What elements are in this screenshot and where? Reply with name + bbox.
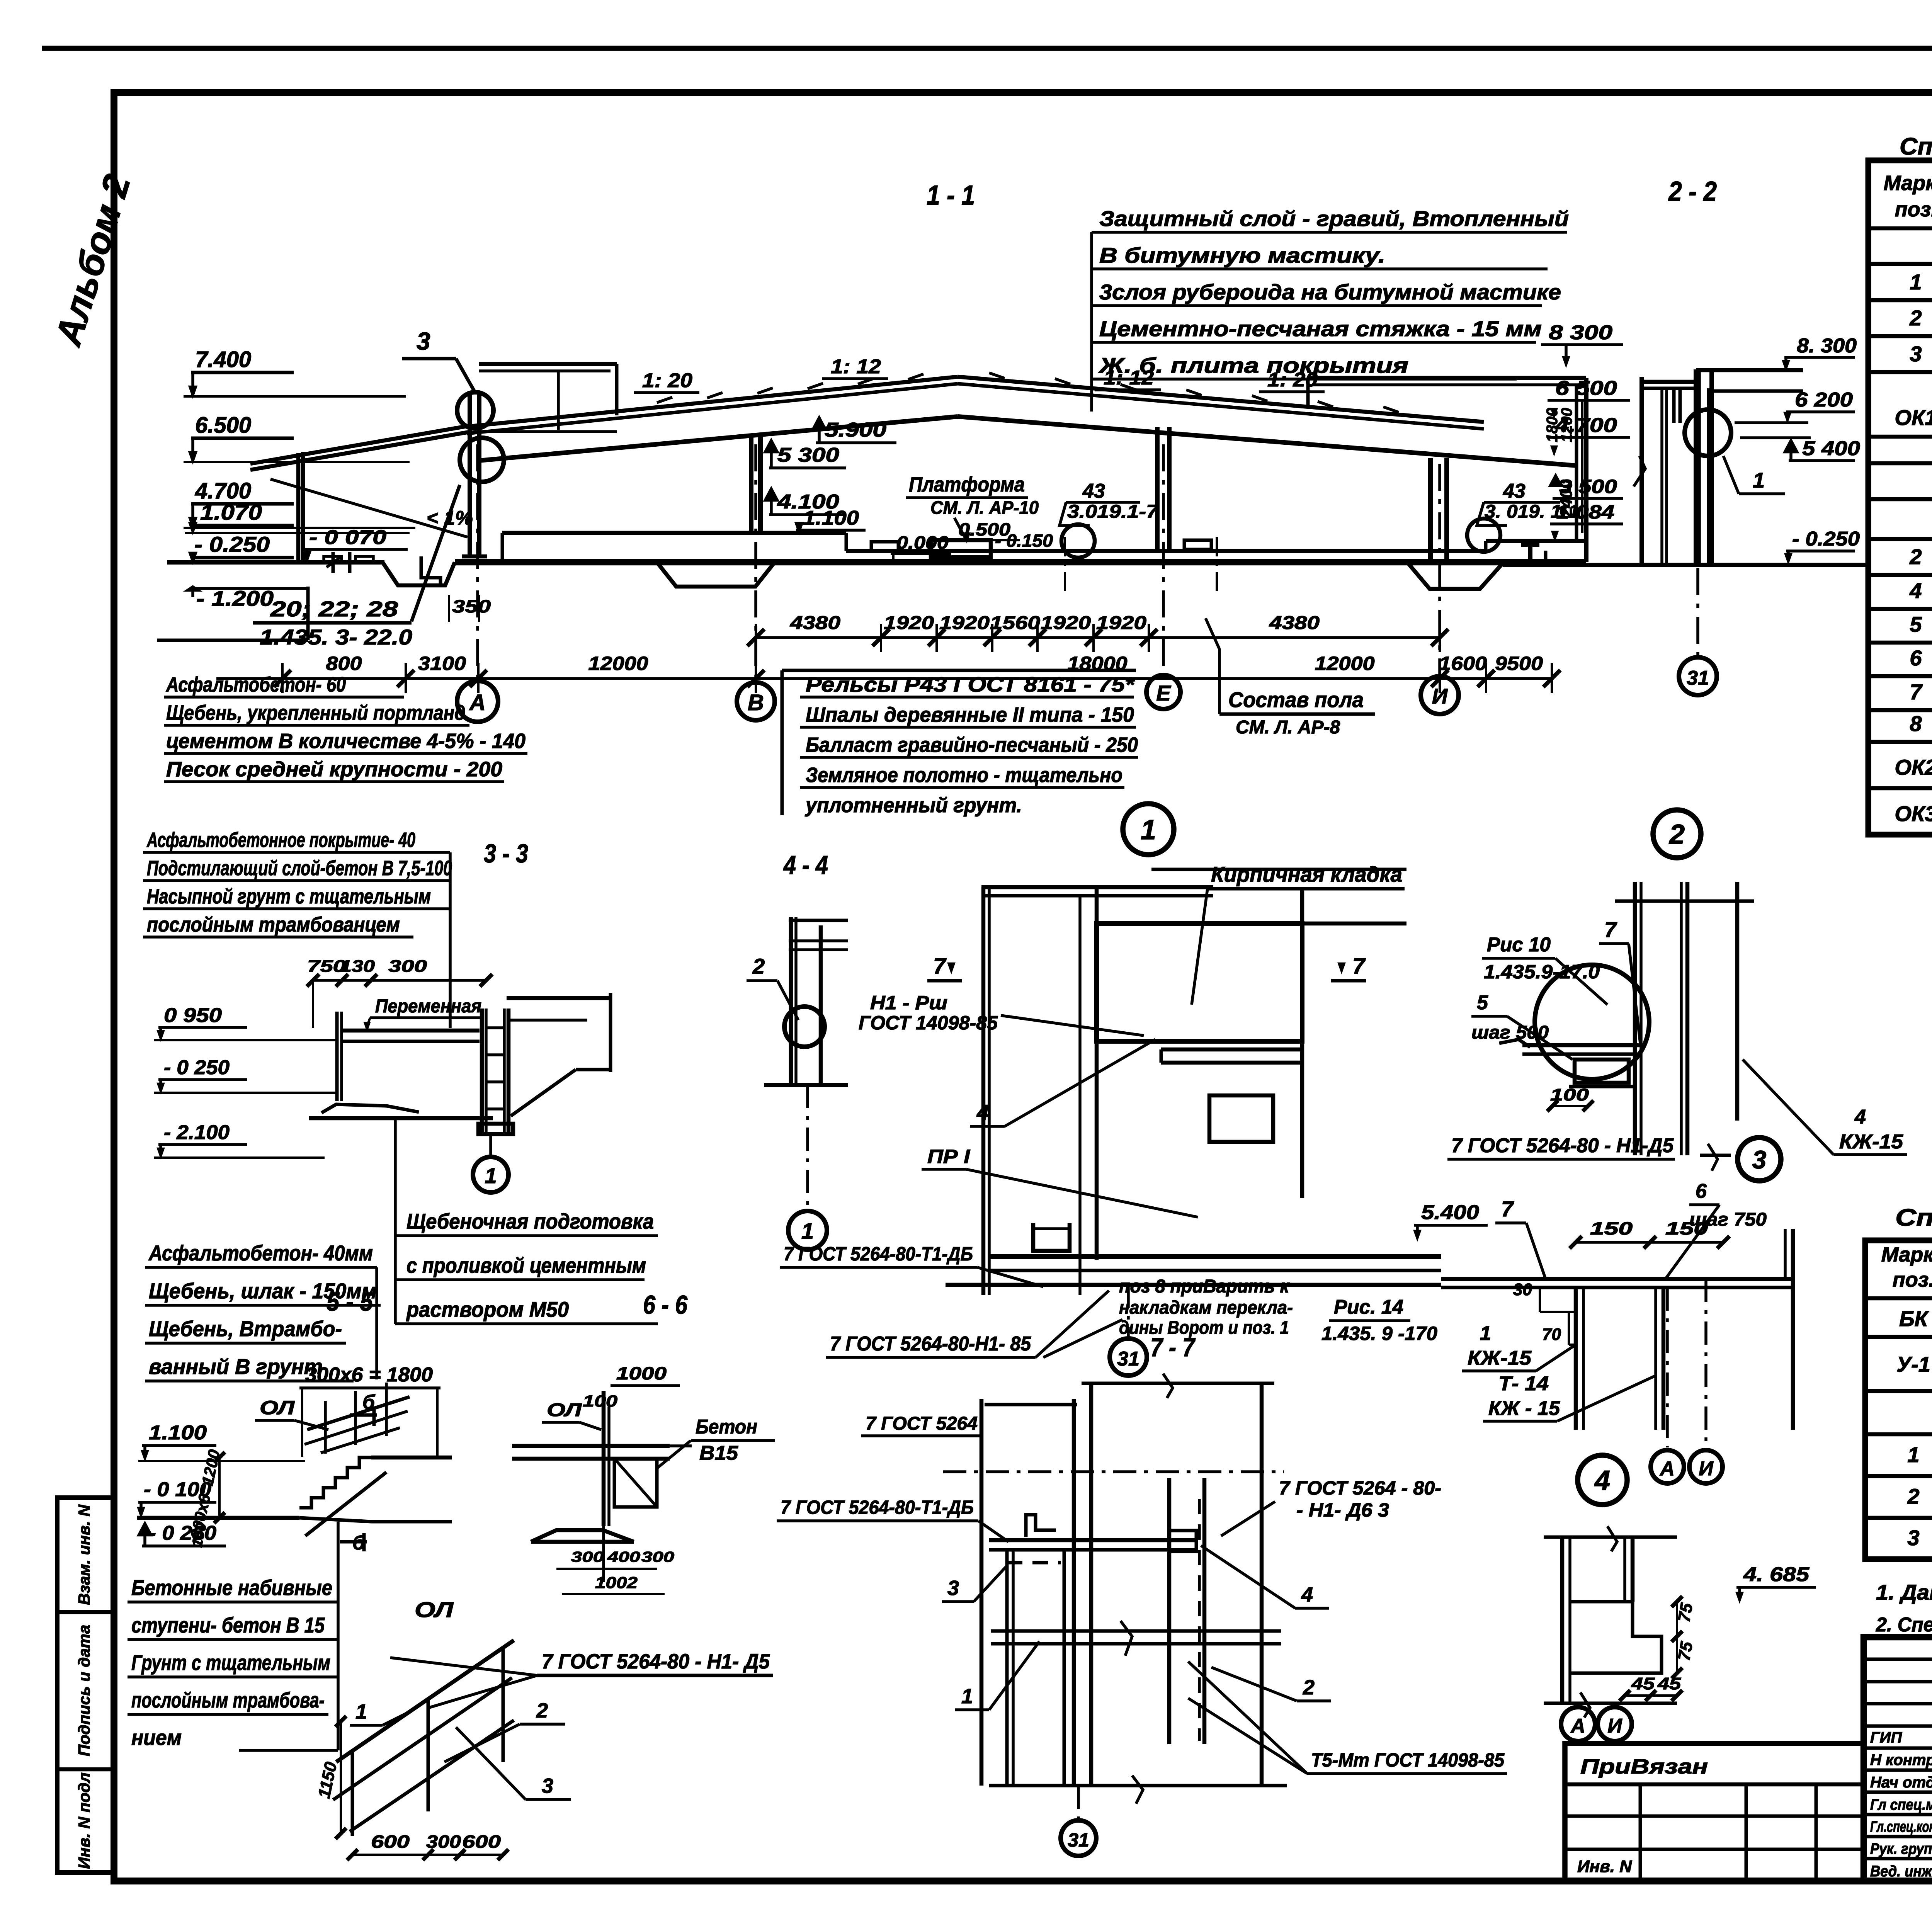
main roof left slope lower line <box>467 384 958 434</box>
svg-text:1920: 1920 <box>1096 613 1146 633</box>
svg-text:Подстилающий слой-бетон В 7,5: Подстилающий слой-бетон В 7,5-100 <box>147 857 452 880</box>
detail 4-4 axis line <box>806 1085 809 1210</box>
stairs bottom floor line <box>137 1516 299 1520</box>
detail 4-4 top flange <box>789 919 848 922</box>
svg-text:7: 7 <box>1501 1197 1514 1221</box>
svg-text:Е: Е <box>1156 681 1171 705</box>
svg-text:7: 7 <box>933 954 947 979</box>
left margin stamp boxes <box>57 1498 114 1872</box>
svg-text:В15: В15 <box>699 1442 738 1464</box>
svg-text:А: А <box>1659 1458 1675 1480</box>
svg-text:ОЛ: ОЛ <box>547 1400 582 1420</box>
outer sheet border top line <box>42 46 1932 51</box>
svg-text:1200: 1200 <box>1558 408 1575 442</box>
node 4 axis circles A and I <box>1577 1703 1580 1707</box>
node 4 top break line <box>1544 1536 1677 1539</box>
detail 7-7 right column verticals <box>1167 1478 1172 1744</box>
detail 3-3 ground line and shoe <box>309 1116 493 1121</box>
svg-text:Щебень, Втрамбо-: Щебень, Втрамбо- <box>149 1316 342 1341</box>
sostav pola leader line <box>1218 649 1221 714</box>
svg-text:У-1: У-1 <box>1896 1352 1930 1376</box>
right rail pedestal <box>1184 540 1211 549</box>
svg-text:7 ГОСТ 5264-80-Т1-ДБ: 7 ГОСТ 5264-80-Т1-ДБ <box>781 1497 974 1518</box>
svg-text:дины Ворот и поз. 1: дины Ворот и поз. 1 <box>1119 1318 1289 1338</box>
svg-text:130: 130 <box>340 957 375 976</box>
svg-text:Балласт гравийно-песчаный - 2: Балласт гравийно-песчаный - 250 <box>806 733 1138 757</box>
node 2 window box <box>1575 1060 1629 1083</box>
detail 7-7 right angle piece <box>1169 1531 1196 1551</box>
svg-text:БК: БК <box>1899 1306 1929 1331</box>
svg-text:ОК2: ОК2 <box>1895 755 1932 779</box>
svg-text:5: 5 <box>1910 612 1922 636</box>
right wall of building <box>1575 385 1578 541</box>
svg-text:Защитный слой - гравий, Втопл: Защитный слой - гравий, Втопленный <box>1099 206 1569 231</box>
table 3 grid <box>1865 1240 1932 1559</box>
rails note box border <box>781 670 784 815</box>
svg-text:Щебень, укрепленный портланд: Щебень, укрепленный портланд <box>166 701 466 724</box>
rail axes dash-dot <box>1064 537 1066 595</box>
svg-text:7 ГОСТ 5264-80 - Н1- Д5: 7 ГОСТ 5264-80 - Н1- Д5 <box>542 1650 770 1673</box>
svg-text:1560: 1560 <box>990 613 1040 633</box>
floor slab 0.000 top line <box>502 531 846 535</box>
detail 3-3 column with battens <box>480 1009 484 1132</box>
detail circle on column A upper <box>457 392 493 429</box>
svg-text:1.435. 9 -170: 1.435. 9 -170 <box>1321 1323 1437 1344</box>
svg-text:Марка: Марка <box>1881 1243 1932 1266</box>
svg-text:5.900: 5.900 <box>825 419 886 441</box>
svg-text:4: 4 <box>1854 1106 1866 1128</box>
stairs top landing <box>371 1456 452 1460</box>
detail 7-7 horizontal axis dash-dot <box>943 1470 1284 1473</box>
OL railing posts <box>351 1751 354 1836</box>
stairs railing <box>307 1397 410 1430</box>
svg-text:- 0.150: - 0.150 <box>995 531 1053 551</box>
svg-text:Бетон: Бетон <box>696 1416 757 1438</box>
svg-text:2 - 2: 2 - 2 <box>1668 176 1717 207</box>
svg-text:1002: 1002 <box>595 1573 638 1592</box>
stairs steps <box>299 1458 371 1508</box>
svg-text:1: 12: 1: 12 <box>1104 367 1154 389</box>
svg-text:2: 2 <box>1668 819 1685 850</box>
section 2-2 axis circle 31 <box>1696 568 1699 657</box>
left rail pedestal <box>871 542 898 551</box>
svg-text:1: 20: 1: 20 <box>642 369 692 392</box>
svg-text:3 - 3: 3 - 3 <box>484 839 528 868</box>
svg-text:300: 300 <box>641 1549 674 1565</box>
svg-text:Грунт с тщательным: Грунт с тщательным <box>131 1650 330 1675</box>
svg-text:1: 1 <box>1907 1442 1919 1467</box>
dimension line mid 4380..4380 <box>756 636 1440 639</box>
svg-text:Подпись и дата: Подпись и дата <box>75 1625 93 1756</box>
svg-text:Щебеночная подготовка: Щебеночная подготовка <box>406 1209 654 1233</box>
note block left edge line <box>1090 232 1093 412</box>
node 2 wall verticals <box>1633 882 1637 1155</box>
section 2-2 ground line <box>1643 563 1866 567</box>
svg-text:1920: 1920 <box>939 613 990 633</box>
svg-text:1: 1 <box>1141 815 1156 845</box>
svg-text:2: 2 <box>536 1699 548 1722</box>
svg-text:Рис 10: Рис 10 <box>1487 934 1551 956</box>
svg-text:3100: 3100 <box>418 653 466 674</box>
crushed stone leader <box>394 1120 397 1324</box>
canopy tie rod <box>270 479 468 537</box>
ceiling beam line left slope <box>479 417 958 461</box>
svg-text:7.400: 7.400 <box>195 347 251 372</box>
svg-text:Инв. N: Инв. N <box>1577 1857 1632 1876</box>
svg-text:600: 600 <box>462 1832 501 1852</box>
svg-text:400: 400 <box>607 1549 640 1565</box>
svg-text:1: 1 <box>1910 270 1922 294</box>
ground line left of building <box>167 560 384 565</box>
detail 7-7 axis circle 31 <box>1077 1786 1080 1818</box>
svg-text:1 - 1: 1 - 1 <box>927 180 975 211</box>
svg-text:СМ. Л. АР-8: СМ. Л. АР-8 <box>1236 717 1340 738</box>
stairs railing posts <box>324 1401 327 1454</box>
node 1 axis circle 31 <box>1127 1285 1130 1338</box>
node 1 circle label <box>1123 804 1174 855</box>
detail 6-6 bottom dims <box>556 1568 657 1570</box>
svg-text:300: 300 <box>426 1832 461 1852</box>
floor slab bottom line <box>455 559 1586 566</box>
svg-text:12000: 12000 <box>1315 653 1375 674</box>
svg-text:1.070: 1.070 <box>200 500 262 524</box>
svg-text:300х6 = 1800: 300х6 = 1800 <box>305 1364 433 1386</box>
svg-text:4 - 4: 4 - 4 <box>783 850 828 880</box>
svg-text:В: В <box>748 690 764 715</box>
svg-text:5.400: 5.400 <box>1421 1201 1479 1224</box>
svg-text:43: 43 <box>1082 480 1105 502</box>
svg-text:4380: 4380 <box>1269 613 1320 633</box>
svg-text:75: 75 <box>1675 1602 1697 1624</box>
svg-text:Платформа: Платформа <box>909 473 1025 496</box>
svg-text:И: И <box>1607 1715 1622 1737</box>
svg-text:1.100: 1.100 <box>803 507 859 529</box>
detail 6-6 slab lines <box>512 1444 670 1448</box>
node 2 circle label <box>1653 810 1701 858</box>
svg-text:Гл спец.м: Гл спец.м <box>1870 1796 1932 1813</box>
node 3 columns below <box>1574 1287 1578 1430</box>
platform box 0.500 <box>931 540 991 557</box>
svg-text:с проливкой цементным: с проливкой цементным <box>406 1253 646 1277</box>
svg-text:1: 20: 1: 20 <box>1267 369 1318 391</box>
svg-text:- 0.250: - 0.250 <box>194 532 270 556</box>
node 1 wall verticals <box>981 887 986 1295</box>
axis dash-dot lines section 1-1 <box>476 444 479 681</box>
svg-text:уплотненный грунт.: уплотненный грунт. <box>804 794 1022 817</box>
detail 3-3 thin post <box>335 1012 339 1101</box>
svg-text:2: 2 <box>1909 306 1922 330</box>
interior column axis I <box>1428 458 1433 564</box>
svg-text:- 0.250: - 0.250 <box>1792 528 1860 550</box>
node 2 bottom break <box>1700 1154 1731 1157</box>
left parapet step <box>615 364 619 415</box>
section 2-2 roof line right <box>1712 389 1803 393</box>
svg-text:600: 600 <box>371 1832 410 1852</box>
foundation pit under column A <box>383 562 455 585</box>
node 1 top slab lines <box>981 885 1213 889</box>
axis circle A <box>457 681 498 722</box>
svg-text:3: 3 <box>1907 1526 1919 1550</box>
svg-text:5: 5 <box>1477 992 1488 1014</box>
svg-text:- 1.200: - 1.200 <box>196 586 274 611</box>
svg-text:Рук. груп.: Рук. груп. <box>1870 1840 1932 1857</box>
svg-text:0 950: 0 950 <box>164 1004 222 1027</box>
svg-text:1.435.9-17.0: 1.435.9-17.0 <box>1484 961 1600 983</box>
detail 4-4 axis circle 1 <box>788 1211 827 1250</box>
svg-text:КЖ-15: КЖ-15 <box>1839 1131 1903 1153</box>
node 1 beam under brick <box>1161 1048 1302 1052</box>
section 2-2 parapet top line <box>1696 368 1803 372</box>
detail 3-3 embankment slope <box>511 1070 576 1116</box>
svg-text:8 300: 8 300 <box>1549 321 1612 344</box>
svg-text:Марка: Марка <box>1884 172 1932 195</box>
svg-text:послойным трамбованцем: послойным трамбованцем <box>147 913 400 936</box>
svg-text:8: 8 <box>1910 711 1922 736</box>
svg-text:Рельсы Р43 ГОСТ 8161 - 75*: Рельсы Р43 ГОСТ 8161 - 75* <box>806 673 1135 696</box>
detail 6-6 base shoe <box>531 1530 634 1542</box>
svg-text:- 2.100: - 2.100 <box>164 1121 230 1144</box>
section 2-2 column axis 31 <box>1694 369 1698 565</box>
svg-text:3: 3 <box>542 1774 553 1798</box>
detail 7-7 inner verticals <box>1089 1383 1094 1786</box>
svg-text:шаг 500: шаг 500 <box>1471 1022 1549 1043</box>
svg-text:45: 45 <box>1657 1674 1681 1693</box>
roof plate joint ticks <box>657 397 672 403</box>
left parapet panel above column A <box>479 362 617 366</box>
section 2-2 hanging post <box>1672 388 1676 423</box>
section 2-2 wall break mark <box>1634 456 1645 486</box>
axis circle I <box>1421 676 1459 714</box>
svg-text:7: 7 <box>1910 680 1923 704</box>
svg-text:350: 350 <box>452 596 491 616</box>
node 1 bottom slab <box>989 1254 1441 1259</box>
svg-text:< 1%: < 1% <box>427 507 473 529</box>
svg-text:6 200: 6 200 <box>1795 389 1853 411</box>
svg-text:Взам. инв. N: Взам. инв. N <box>75 1504 93 1605</box>
svg-text:поз 8 приВарить к: поз 8 приВарить к <box>1119 1276 1290 1297</box>
svg-text:800: 800 <box>326 653 362 674</box>
svg-text:7 - 7: 7 - 7 <box>1150 1333 1196 1362</box>
svg-text:ступени- бетон В 15: ступени- бетон В 15 <box>131 1613 325 1637</box>
svg-text:1: 1 <box>355 1700 367 1723</box>
svg-text:Гл.спец.кон: Гл.спец.кон <box>1870 1818 1932 1835</box>
canopy roof slope <box>250 432 469 470</box>
table 1 grid <box>1868 160 1932 835</box>
node 1 brick block <box>1097 923 1302 1041</box>
svg-text:1: 1 <box>961 1685 973 1708</box>
ceiling beam line right slope <box>958 417 1577 466</box>
svg-text:8. 300: 8. 300 <box>1797 335 1857 357</box>
svg-text:20; 22; 28: 20; 22; 28 <box>270 597 398 621</box>
svg-text:В битумную мастику.: В битумную мастику. <box>1099 243 1385 267</box>
svg-text:5 300: 5 300 <box>777 444 839 466</box>
svg-text:раствором М50: раствором М50 <box>406 1297 569 1321</box>
svg-text:1920: 1920 <box>1041 613 1091 633</box>
svg-text:5 400: 5 400 <box>1802 437 1860 460</box>
detail 3-3 footing <box>478 1124 513 1134</box>
title block outer box <box>1864 1637 1932 1881</box>
svg-text:75: 75 <box>1675 1640 1697 1662</box>
axis circle B <box>737 682 775 720</box>
detail 3-3 note right border leader <box>449 852 452 1028</box>
foundation under column B <box>657 562 775 587</box>
svg-text:Шпалы деревянные II типа - 1: Шпалы деревянные II типа - 150 <box>806 703 1134 726</box>
svg-text:КЖ-15: КЖ-15 <box>1468 1347 1532 1369</box>
svg-text:6 - 6: 6 - 6 <box>643 1290 688 1320</box>
svg-text:Земляное полотно - тщательно: Земляное полотно - тщательно <box>806 764 1122 787</box>
rail break marks left <box>332 552 335 573</box>
svg-text:2: 2 <box>1907 1484 1919 1509</box>
main roof right slope lower line <box>958 384 1484 429</box>
node 1 upper-right slab <box>1151 868 1406 871</box>
svg-text:Асфальтобетон- 40мм: Асфальтобетон- 40мм <box>148 1241 373 1265</box>
svg-text:1: 1 <box>485 1163 497 1188</box>
svg-text:9500: 9500 <box>1495 653 1543 674</box>
detail 6-6 hatch box <box>614 1459 657 1507</box>
svg-text:Спецификация элементов зап: Спецификация элементов заполнения проемо… <box>1900 133 1932 160</box>
svg-text:4. 685: 4. 685 <box>1743 1563 1810 1586</box>
svg-text:43: 43 <box>1503 480 1526 502</box>
svg-text:4: 4 <box>1909 578 1922 603</box>
node 3 axis circle I <box>1689 1450 1723 1483</box>
rail buffer U-1 right <box>1528 545 1532 565</box>
svg-text:1920: 1920 <box>884 613 934 633</box>
svg-text:6: 6 <box>1696 1180 1707 1202</box>
svg-text:ПР I: ПР I <box>927 1146 970 1167</box>
svg-text:1000: 1000 <box>616 1363 667 1383</box>
section 2-2 left wall <box>1639 377 1644 565</box>
svg-text:ПриВязан: ПриВязан <box>1580 1755 1708 1778</box>
svg-text:1: 1 <box>1480 1322 1491 1345</box>
node 3 axis lines to A and I circles <box>1666 1287 1669 1447</box>
svg-text:2. Спецификацию металлических: 2. Спецификацию металлических элементов … <box>1876 1614 1932 1636</box>
svg-text:ОК3: ОК3 <box>1895 801 1932 826</box>
svg-text:И: И <box>1699 1458 1714 1480</box>
node 3 axis circle A <box>1651 1450 1684 1483</box>
OL gost leaders <box>390 1658 537 1675</box>
expansion joint circle right <box>1467 519 1500 552</box>
svg-text:31: 31 <box>1687 667 1709 689</box>
svg-text:7: 7 <box>1604 917 1617 942</box>
detail 3-3 dims 750/130/300 <box>313 979 486 982</box>
node 4 dims 45 45 <box>1625 1694 1677 1697</box>
svg-text:Песок средней крупности - 200: Песок средней крупности - 200 <box>166 758 502 781</box>
detail 7-7 post pair <box>1005 1550 1009 1786</box>
svg-text:7 ГОСТ 5264-80-Т1-ДБ: 7 ГОСТ 5264-80-Т1-ДБ <box>784 1243 973 1265</box>
svg-text:3: 3 <box>947 1577 959 1600</box>
interior column axis B <box>749 434 753 533</box>
svg-text:7 ГОСТ 5264 - 80-: 7 ГОСТ 5264 - 80- <box>1279 1477 1441 1499</box>
node 1 window box <box>1209 1095 1273 1142</box>
right parapet top <box>1308 376 1586 380</box>
svg-text:2: 2 <box>1909 544 1922 569</box>
svg-text:31: 31 <box>1068 1829 1089 1851</box>
svg-text:300: 300 <box>571 1549 604 1565</box>
section 2-2 extra wall panel lines <box>1660 388 1663 565</box>
svg-text:2: 2 <box>1303 1676 1315 1699</box>
svg-text:ГИП: ГИП <box>1870 1729 1902 1746</box>
svg-text:30: 30 <box>1513 1280 1532 1299</box>
svg-text:12000: 12000 <box>588 653 648 674</box>
svg-text:150: 150 <box>1590 1218 1633 1238</box>
svg-text:поз.: поз. <box>1895 198 1932 221</box>
svg-text:6: 6 <box>1910 646 1922 670</box>
svg-text:нием: нием <box>131 1725 182 1750</box>
svg-text:Вед. инж.: Вед. инж. <box>1870 1863 1932 1880</box>
detail 3-3 circle 1 callout <box>473 1157 509 1192</box>
excavation outline bottom-left <box>157 639 308 642</box>
svg-text:Кирпичная кладка: Кирпичная кладка <box>1211 862 1402 886</box>
node 2 top tick <box>1615 900 1754 903</box>
svg-text:3: 3 <box>417 327 430 355</box>
detail 3-3 platform beam right <box>507 996 611 1000</box>
detail 6-6 post <box>602 1391 606 1526</box>
node 4 bottom break line <box>1544 1702 1677 1705</box>
stairs slab underside <box>305 1472 386 1536</box>
svg-text:7 ГОСТ 5264-80-Н1- 85: 7 ГОСТ 5264-80-Н1- 85 <box>830 1333 1031 1355</box>
svg-text:Инв. N подл: Инв. N подл <box>75 1772 93 1869</box>
svg-text:1: 12: 1: 12 <box>831 355 881 378</box>
main roof right slope upper line <box>958 377 1484 422</box>
svg-text:5 - 5: 5 - 5 <box>327 1287 373 1316</box>
detail 7-7 beam plate <box>989 1538 1198 1543</box>
interior column axis E <box>1155 427 1160 551</box>
svg-text:70: 70 <box>1542 1325 1561 1344</box>
svg-text:1: 1 <box>1753 468 1765 492</box>
svg-text:Бетонные набивные: Бетонные набивные <box>131 1575 332 1600</box>
svg-text:ванный В грунт: ванный В грунт <box>149 1354 323 1379</box>
svg-text:шаг 750: шаг 750 <box>1689 1209 1767 1230</box>
dimension line bottom 800/3100/12000/18000 <box>216 677 1552 680</box>
detail 4-4 bottom line <box>764 1083 848 1087</box>
canopy support post <box>296 453 301 562</box>
svg-text:поз.: поз. <box>1893 1268 1932 1291</box>
svg-text:Рис. 14: Рис. 14 <box>1334 1296 1403 1318</box>
svg-text:3слоя рубероида на битумной: 3слоя рубероида на битумной мастике <box>1099 280 1561 304</box>
node 2 lintel lines <box>1522 1043 1640 1048</box>
detail 3-3 lower note vertical <box>375 1267 378 1379</box>
detail 7-7 dashed plate <box>1007 1561 1061 1565</box>
railway sleepers left <box>324 556 342 562</box>
svg-text:1.435. 3- 22.0: 1.435. 3- 22.0 <box>260 625 412 649</box>
svg-text:Спецификация металлических: Спецификация металлических элементов <box>1895 1204 1932 1231</box>
svg-text:Цементно-песчаная стяжка - 15: Цементно-песчаная стяжка - 15 мм <box>1099 316 1542 341</box>
detail circle on column A lower <box>460 438 504 482</box>
axis circle E <box>1146 675 1180 709</box>
svg-text:- Н1- Д6 3: - Н1- Д6 3 <box>1296 1499 1389 1521</box>
svg-text:31: 31 <box>1117 1348 1139 1370</box>
svg-text:4: 4 <box>976 1100 989 1124</box>
svg-text:Асфальтобетонное покрытие- 40: Асфальтобетонное покрытие- 40 <box>146 828 415 852</box>
node 4 wall verticals <box>1560 1537 1565 1703</box>
detail 7-7 angle on beam <box>1026 1515 1056 1537</box>
detail 4-4 wall lines <box>789 917 793 1085</box>
svg-text:3: 3 <box>1752 1145 1767 1174</box>
ground line right of building <box>1503 563 1866 567</box>
svg-text:Т5-Мт ГОСТ 14098-85: Т5-Мт ГОСТ 14098-85 <box>1311 1749 1505 1771</box>
svg-text:Нач отд: Нач отд <box>1870 1774 1932 1791</box>
svg-text:3: 3 <box>1910 342 1922 366</box>
svg-text:300: 300 <box>388 957 427 976</box>
svg-text:2400: 2400 <box>1557 480 1576 518</box>
detail 7-7 top line with break <box>1082 1382 1274 1385</box>
svg-text:ОК1: ОК1 <box>1895 405 1932 430</box>
node 2 big detail circle <box>1535 965 1649 1079</box>
node 2 angle piece <box>1499 1039 1530 1047</box>
svg-text:7 ГОСТ 5264-80 - Н1-Д5: 7 ГОСТ 5264-80 - Н1-Д5 <box>1451 1134 1674 1157</box>
svg-text:цементом В количестве 4-5% - 1: цементом В количестве 4-5% - 140 <box>166 730 526 753</box>
expansion joint circle left <box>1061 524 1095 558</box>
